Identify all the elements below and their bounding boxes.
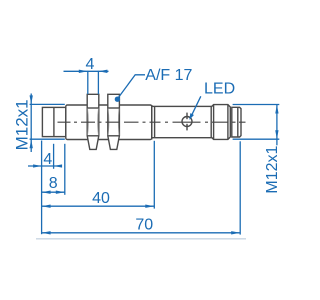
svg-text:M12x1: M12x1 (12, 99, 31, 150)
svg-text:M12x1: M12x1 (264, 145, 281, 193)
svg-text:70: 70 (135, 217, 153, 234)
svg-text:4: 4 (86, 56, 95, 73)
svg-text:40: 40 (92, 190, 110, 207)
svg-text:8: 8 (49, 175, 58, 192)
svg-text:LED: LED (204, 81, 235, 98)
svg-text:A/F 17: A/F 17 (145, 67, 192, 84)
svg-text:4: 4 (43, 151, 52, 168)
